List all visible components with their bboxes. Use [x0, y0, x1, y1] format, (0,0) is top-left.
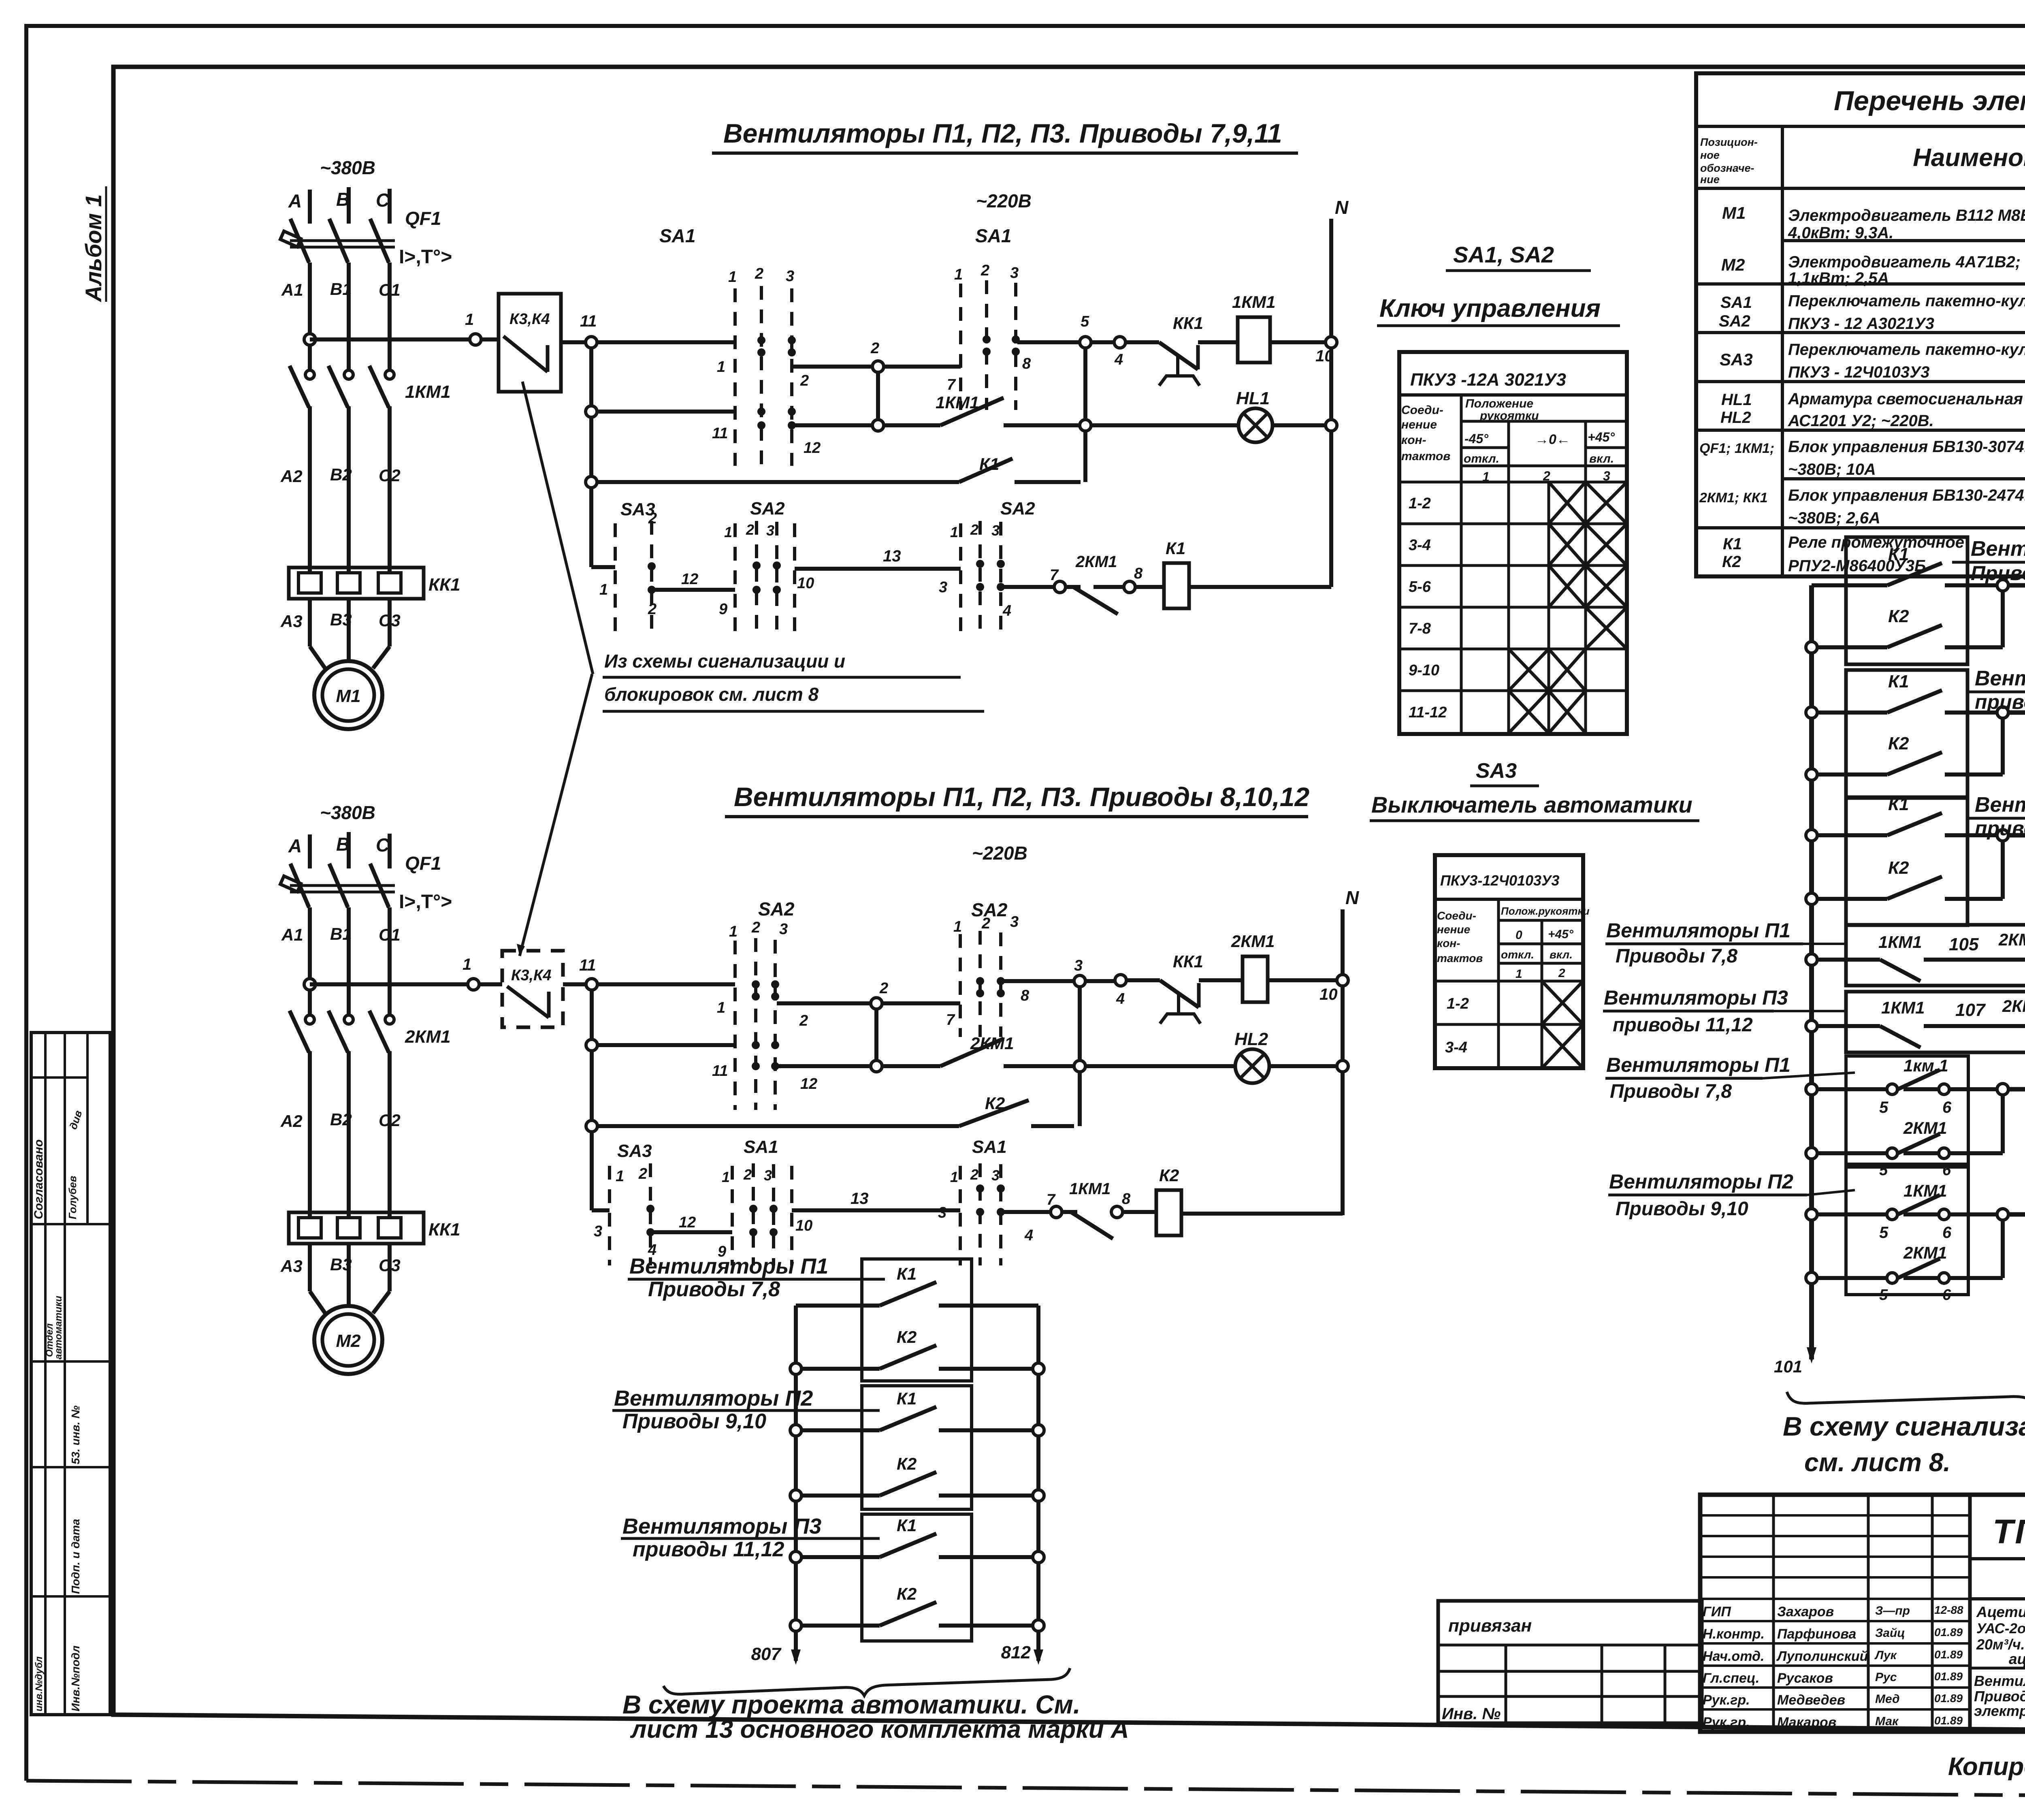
- svg-text:Выключатель автоматики: Выключатель автоматики: [1371, 792, 1692, 817]
- phase wires overload to motor (М2): [308, 1244, 312, 1291]
- svg-text:Переключатель пакетно-кулачко: Переключатель пакетно-кулачковый: [1788, 341, 2025, 358]
- ladder brace: [663, 1668, 1070, 1696]
- title block vertical split: [1968, 1495, 1972, 1732]
- svg-text:SA2: SA2: [1000, 499, 1035, 518]
- switch table PKU3-12Ch0103U3: [1435, 855, 1583, 1068]
- svg-text:Приводы 7,8: Приводы 7,8: [648, 1278, 780, 1301]
- wire row1 to SA1a: [597, 340, 735, 344]
- document number TPR 405-9-0 34.A9 EM: [1970, 1557, 2025, 1560]
- svg-text:К1: К1: [897, 1516, 917, 1535]
- svg-text:Макаров: Макаров: [1777, 1715, 1836, 1730]
- wire HL1 to N: [1273, 423, 1331, 427]
- SA3 contact dots circuit 2: [646, 1205, 654, 1213]
- output 5-6 to bus x5110: [2008, 1212, 2025, 1217]
- svg-text:А: А: [288, 190, 302, 211]
- callout line text to K3K4-2: [520, 674, 592, 956]
- svg-text:SA1, SA2: SA1, SA2: [1453, 242, 1554, 267]
- svg-text:2: 2: [981, 915, 990, 932]
- node 8 circuit 1: [1124, 581, 1135, 593]
- stamp row line 4: [31, 1466, 110, 1468]
- node 1 circuit 2: [468, 979, 479, 990]
- wire row4 entry circuit 1: [591, 565, 615, 569]
- motor М2: [314, 1306, 382, 1374]
- table2 data grid: [1435, 980, 1583, 983]
- svg-text:Перечень элементов: Перечень элементов: [1834, 85, 2025, 116]
- auxiliary contact 2KM1 circuit 2: [882, 1064, 940, 1068]
- svg-text:блокировок см. лист 8: блокировок см. лист 8: [604, 684, 819, 705]
- node 7 circuit 1: [1054, 581, 1066, 593]
- link node2 down: [876, 372, 880, 420]
- svg-text:01.89: 01.89: [1934, 1670, 1963, 1683]
- link node3 down to row2 circuit 2: [1078, 987, 1082, 1060]
- svg-text:див: див: [67, 1109, 84, 1131]
- svg-text:С3: С3: [379, 1256, 401, 1275]
- svg-text:приводы 11,12: приводы 11,12: [633, 1538, 784, 1561]
- svg-text:ацетилена.: ацетилена.: [2009, 1651, 2025, 1667]
- svg-text:М1: М1: [1722, 203, 1746, 222]
- network brace: [1787, 1374, 2025, 1405]
- svg-text:Рук.гр.: Рук.гр.: [1703, 1715, 1750, 1730]
- contact 2КМ1 5-6 row y2847: [1806, 1148, 1817, 1159]
- svg-text:вкл.: вкл.: [1589, 452, 1614, 465]
- svg-text:01.89: 01.89: [1934, 1626, 1963, 1639]
- thermal overload KK1 heaters (М1): [289, 568, 424, 599]
- svg-text:В схему проекта автоматики.: В схему проекта автоматики. См.: [622, 1690, 1081, 1719]
- svg-text:12: 12: [681, 571, 698, 588]
- svg-text:К3,К4: К3,К4: [509, 311, 550, 328]
- svg-text:УАС-2ог производительностью: УАС-2ог производительностью: [1976, 1621, 2025, 1637]
- wire node1 to K3K4: [481, 337, 499, 341]
- svg-text:Приводы 7,8: Приводы 7,8: [1971, 562, 2025, 585]
- phase A wire QF1 to contactor (М2): [308, 907, 312, 1015]
- svg-text:Наименование: Наименование: [1913, 144, 2025, 172]
- svg-text:SA1: SA1: [972, 1137, 1007, 1157]
- svg-text:Положение: Положение: [1465, 397, 1533, 410]
- svg-text:1КМ1: 1КМ1: [405, 382, 451, 402]
- svg-text:4: 4: [1002, 602, 1011, 619]
- svg-text:С: С: [376, 190, 390, 211]
- svg-text:К2: К2: [1888, 734, 1909, 753]
- stamp column line b: [64, 1033, 66, 1715]
- stamp row line 3: [31, 1360, 110, 1363]
- link node5 down to row2: [1083, 348, 1087, 420]
- svg-text:8: 8: [1022, 355, 1031, 372]
- junction row1 on N circuit 2: [1337, 975, 1348, 986]
- svg-text:1: 1: [1516, 967, 1522, 981]
- relay contact K1 circuit 1: [959, 459, 1013, 482]
- phase wires overload to motor (М1): [308, 599, 312, 646]
- svg-text:приводы 11,12: приводы 11,12: [1975, 817, 2025, 840]
- svg-text:Вентиляторы П3: Вентиляторы П3: [1604, 986, 1788, 1009]
- svg-text:ГИП: ГИП: [1703, 1604, 1731, 1619]
- relay contact К2 row y2219: [1887, 877, 1942, 899]
- svg-text:3: 3: [1010, 265, 1019, 282]
- svg-text:Соеди-: Соеди-: [1401, 403, 1443, 417]
- stamp column line c: [86, 1033, 89, 1224]
- relay contact box К1/К2 y1326: [1846, 537, 1967, 664]
- junction row1 on N circuit 1: [1326, 337, 1337, 348]
- svg-text:7: 7: [1047, 1191, 1056, 1208]
- wire row1 phase tap to node 1 circuit 2: [310, 982, 468, 986]
- svg-text:Вентиляторы П1, П2, П3. Привод: Вентиляторы П1, П2, П3. Приводы 8,10,12: [734, 782, 1309, 812]
- wire node2 to SA1b: [884, 365, 961, 369]
- svg-text:7: 7: [1050, 567, 1059, 584]
- phase C lead-in wire (М2): [388, 834, 392, 868]
- svg-text:1: 1: [599, 581, 608, 598]
- svg-text:10: 10: [1315, 347, 1334, 365]
- wire row1 phase tap to node 1: [310, 337, 470, 341]
- control tap node on phase A (М2): [304, 979, 315, 990]
- contact 1км,1 5-6 row y2689: [1806, 1084, 1817, 1095]
- svg-text:HL1: HL1: [1721, 391, 1752, 409]
- corner row3 up to row2 circuit 2: [1078, 1072, 1082, 1126]
- svg-text:SA1: SA1: [1720, 294, 1752, 312]
- svg-text:А3: А3: [280, 612, 303, 631]
- svg-text:SA3: SA3: [1476, 759, 1517, 783]
- svg-text:13: 13: [883, 547, 901, 565]
- svg-text:Захаров: Захаров: [1777, 1604, 1834, 1619]
- svg-text:6: 6: [1942, 1099, 1952, 1116]
- svg-text:Ацетиленовая станция: Ацетиленовая станция: [1976, 1604, 2025, 1620]
- pair link vertical 5-6 y2998: [1997, 1209, 2008, 1220]
- relay contact box К1/К2 y1970: [1846, 798, 1967, 925]
- svg-text:6: 6: [1942, 1224, 1952, 1242]
- node row2-mid circuit 1: [872, 420, 884, 431]
- svg-text:С: С: [376, 834, 390, 856]
- svg-text:К2: К2: [1722, 553, 1741, 571]
- svg-text:К2: К2: [1888, 606, 1909, 626]
- svg-text:1: 1: [724, 524, 732, 540]
- svg-text:Соеди-: Соеди-: [1437, 909, 1476, 922]
- svg-text:В2: В2: [330, 465, 352, 484]
- svg-text:2: 2: [751, 919, 760, 936]
- pair link vertical 5-6 y2689: [1997, 1084, 2008, 1095]
- element list table frame: [1696, 73, 2025, 576]
- svg-text:2: 2: [870, 340, 879, 357]
- svg-text:К1: К1: [897, 1264, 917, 1283]
- svg-text:3: 3: [766, 522, 774, 539]
- svg-text:Инв. №: Инв. №: [1442, 1705, 1501, 1723]
- relay contact K2 circuit 2: [959, 1100, 1029, 1126]
- stamp text left col: [34, 1656, 45, 1711]
- svg-text:~220В: ~220В: [976, 190, 1032, 211]
- ladder contact К2 row y4013: [790, 1620, 801, 1631]
- svg-text:8: 8: [1021, 987, 1030, 1004]
- phase A lead-in wire (М1): [308, 190, 312, 224]
- svg-text:3-4: 3-4: [1445, 1039, 1467, 1056]
- svg-text:2: 2: [1558, 967, 1565, 980]
- stamp text Согласовано: [32, 1139, 45, 1219]
- svg-text:Лук: Лук: [1874, 1649, 1897, 1662]
- svg-text:Нач.отд.: Нач.отд.: [1703, 1649, 1764, 1664]
- svg-text:2КМ1; КК1: 2КМ1; КК1: [1699, 490, 1768, 506]
- svg-text:53. инв. №: 53. инв. №: [69, 1406, 82, 1464]
- svg-text:1: 1: [953, 918, 962, 935]
- relay contact К2 row y1598: [1887, 625, 1942, 647]
- svg-text:Блок управления БВ130-2474УХ: Блок управления БВ130-2474УХЛ4;: [1788, 486, 2025, 504]
- ladder box 1: [862, 1259, 972, 1381]
- svg-text:HL1: HL1: [1236, 388, 1270, 408]
- svg-text:Вентиляторы П1: Вентиляторы П1: [629, 1254, 828, 1278]
- svg-text:кон-: кон-: [1401, 433, 1426, 447]
- svg-text:107: 107: [1955, 1000, 1986, 1020]
- svg-text:11: 11: [580, 312, 597, 330]
- wire node3 to node4 circuit 2: [1085, 979, 1115, 983]
- relay coil K2 circuit 2: [1123, 1210, 1156, 1214]
- svg-text:1-2: 1-2: [1409, 495, 1431, 512]
- phase A wire QF1 to contactor (М1): [308, 262, 312, 370]
- svg-text:1: 1: [717, 358, 725, 376]
- svg-text:SA2: SA2: [1719, 312, 1750, 330]
- svg-text:Медведев: Медведев: [1777, 1692, 1845, 1708]
- svg-text:4: 4: [1024, 1227, 1033, 1244]
- svg-text:Согласовано: Согласовано: [32, 1139, 45, 1219]
- output 5-6 to bus x5216: [2008, 1087, 2025, 1092]
- svg-text:А2: А2: [280, 1112, 303, 1131]
- switch table PKU3-12A3021U3: [1399, 352, 1627, 734]
- left drop wire circuit 1: [589, 348, 593, 567]
- interlock K3,K4 dashed box circuit 2: [502, 951, 563, 1027]
- svg-text:9-10: 9-10: [1409, 662, 1439, 679]
- signature grid horizontals: [1700, 1514, 1970, 1517]
- ladder box 2: [862, 1386, 972, 1509]
- SA2a contact dots circuit 1: [752, 561, 761, 570]
- svg-text:13: 13: [850, 1190, 869, 1208]
- SA1a contact dots row1: [757, 336, 765, 344]
- wire 12 SA3 to SA2a circuit 1: [652, 588, 735, 592]
- svg-text:01.89: 01.89: [1934, 1648, 1963, 1661]
- node row2-right circuit 2: [1074, 1060, 1085, 1072]
- svg-text:10: 10: [1319, 986, 1338, 1003]
- wire node2 to SA2b circuit 2: [882, 1001, 960, 1005]
- table1 header cells: [1460, 395, 1463, 734]
- circuit breaker QF1 (М2): [290, 864, 309, 907]
- svg-text:QF1; 1КМ1;: QF1; 1КМ1;: [1699, 441, 1774, 456]
- left drop wire circuit 2: [590, 990, 594, 1210]
- node 4 circuit 1: [1114, 337, 1125, 348]
- relay coil K1 circuit 1: [1093, 585, 1124, 589]
- svg-text:Приводы 7....12. Схема: Приводы 7....12. Схема: [1974, 1688, 2025, 1705]
- wire row2 SA2a to node circuit 2: [777, 1064, 871, 1068]
- stamp row line 5: [31, 1595, 110, 1598]
- relay contact К1 row y2062: [1806, 893, 1817, 905]
- motor feeder 2 group: [280, 802, 460, 1374]
- svg-text:Из схемы сигнализации и: Из схемы сигнализации и: [604, 651, 845, 672]
- svg-text:01.89: 01.89: [1934, 1692, 1963, 1705]
- node row2-left circuit 2: [586, 1039, 597, 1051]
- svg-text:3: 3: [991, 1167, 1000, 1184]
- node 11 circuit 1: [586, 337, 597, 348]
- svg-text:2: 2: [755, 265, 763, 282]
- svg-text:Вентиляторы П1: Вентиляторы П1: [1971, 537, 2025, 561]
- svg-text:1: 1: [950, 1169, 958, 1185]
- node row2-mid circuit 2: [871, 1060, 882, 1072]
- svg-text:кон-: кон-: [1437, 937, 1460, 949]
- stamp row line 1: [31, 1076, 87, 1079]
- pair link vertical y2062: [1997, 830, 2008, 841]
- svg-text:1км,1: 1км,1: [1904, 1056, 1948, 1075]
- svg-text:3: 3: [1074, 957, 1083, 974]
- svg-text:3: 3: [764, 1167, 772, 1184]
- svg-text:~380В: ~380В: [320, 157, 375, 178]
- callout line K3K4-1 to text: [522, 382, 593, 674]
- svg-text:тактов: тактов: [1437, 952, 1483, 964]
- wire row2 to SA1a: [597, 410, 735, 414]
- motor М1: [314, 661, 382, 729]
- SA2a contact dots row2 circuit 2: [752, 1041, 760, 1049]
- svg-text:SA3: SA3: [1720, 350, 1753, 369]
- corner row3 up to row2: [1083, 431, 1087, 482]
- svg-text:Приводы 7,8: Приводы 7,8: [1616, 945, 1737, 967]
- svg-text:3: 3: [939, 579, 947, 596]
- stamp column line a: [44, 1033, 47, 1715]
- svg-text:2КМ1: 2КМ1: [2002, 996, 2025, 1016]
- svg-text:1-2: 1-2: [1447, 995, 1469, 1012]
- wire node5 to node4: [1091, 340, 1115, 344]
- svg-text:10: 10: [795, 1217, 812, 1234]
- svg-text:-45°: -45°: [1464, 431, 1488, 446]
- svg-text:3: 3: [938, 1204, 946, 1221]
- svg-text:812: 812: [1001, 1643, 1031, 1662]
- contactor coil 2KM1 circuit 2: [1243, 956, 1268, 1002]
- ladder contact К2 row y3692: [790, 1490, 801, 1501]
- node 8 circuit 2: [1111, 1206, 1123, 1218]
- svg-text:5: 5: [1879, 1099, 1889, 1116]
- junction row2 on N circuit 2: [1337, 1060, 1348, 1072]
- svg-text:5: 5: [1879, 1287, 1888, 1304]
- svg-text:2КМ1: 2КМ1: [970, 1034, 1014, 1053]
- svg-text:6: 6: [1942, 1162, 1951, 1179]
- svg-text:Рук.гр.: Рук.гр.: [1703, 1692, 1750, 1708]
- wire row2 SA1a to node: [793, 423, 873, 427]
- svg-text:1: 1: [950, 524, 958, 540]
- motor feeder 1 group: [280, 157, 460, 729]
- svg-text:3: 3: [1010, 913, 1019, 930]
- svg-text:SA2: SA2: [750, 499, 785, 518]
- node 11 circuit 2: [586, 979, 597, 990]
- svg-text:2КМ1: 2КМ1: [1903, 1243, 1947, 1262]
- svg-text:SA3: SA3: [617, 1141, 652, 1161]
- svg-text:12: 12: [800, 1075, 817, 1092]
- svg-text:К1: К1: [979, 454, 999, 474]
- stamp text Отдел автоматики: [44, 1323, 55, 1357]
- svg-text:1КМ1: 1КМ1: [936, 393, 979, 412]
- svg-text:11-12: 11-12: [1409, 704, 1447, 721]
- svg-text:5: 5: [1879, 1224, 1889, 1242]
- attachment block: [1438, 1601, 1702, 1723]
- contactor 1КМ1 main contacts (М1): [305, 370, 314, 379]
- svg-text:Вентиляторы П1, П2, П3.: Вентиляторы П1, П2, П3.: [1974, 1673, 2025, 1689]
- svg-text:А3: А3: [280, 1257, 303, 1276]
- svg-text:Ключ управления: Ключ управления: [1379, 294, 1601, 322]
- SA2a contact dots row1 circuit 2: [752, 980, 760, 988]
- interlock K3,K4 box circuit 1: [499, 294, 561, 392]
- svg-text:К1: К1: [1166, 539, 1185, 558]
- output wire to bus x5629: [2008, 583, 2025, 588]
- stamp row line 2: [31, 1223, 110, 1225]
- svg-text:рукоятки: рукоятки: [1479, 409, 1539, 422]
- ladder bottom arrows 807 812: [791, 1649, 801, 1665]
- wire SA1b to node 5: [1017, 340, 1081, 344]
- svg-text:Приводы 9,10: Приводы 9,10: [1616, 1198, 1748, 1220]
- svg-text:4,0кВт; 9,3А.: 4,0кВт; 9,3А.: [1788, 224, 1893, 242]
- control tap node on phase A (М1): [304, 334, 315, 345]
- svg-text:М1: М1: [336, 686, 360, 706]
- svg-text:1КМ1: 1КМ1: [1904, 1181, 1947, 1200]
- svg-text:Вентиляторы П2: Вентиляторы П2: [1609, 1170, 1793, 1193]
- contactor coil 1KM1 circuit 1: [1238, 317, 1270, 363]
- svg-text:Вентиляторы П1: Вентиляторы П1: [1606, 919, 1791, 942]
- svg-text:8: 8: [1122, 1191, 1131, 1208]
- svg-text:+45°: +45°: [1588, 430, 1615, 444]
- svg-text:инв.№дубл: инв.№дубл: [34, 1656, 45, 1711]
- svg-text:2КМ1: 2КМ1: [405, 1027, 451, 1047]
- svg-text:2: 2: [981, 262, 989, 279]
- contact 1КМ1 5-6 row y2998: [1806, 1209, 1817, 1220]
- interlock row 107 contacts: [1806, 1020, 1817, 1032]
- neutral rail N circuit 2: [1341, 909, 1345, 1215]
- svg-text:Электродвигатель 4А71В2; ~380В: Электродвигатель 4А71В2; ~380В;: [1788, 253, 2025, 271]
- thermal contact KK1 circuit 1: [1125, 340, 1159, 344]
- svg-text:Приводы 7,8: Приводы 7,8: [1610, 1081, 1732, 1102]
- svg-text:ПКУ3-12Ч0103У3: ПКУ3-12Ч0103У3: [1440, 872, 1559, 889]
- sheet bottom torn edge line: [26, 1781, 2025, 1799]
- contact box 1км,1/2КМ1 5-6 y2607: [1846, 1056, 1968, 1164]
- svg-text:HL2: HL2: [1720, 409, 1751, 427]
- svg-text:1: 1: [722, 1169, 730, 1185]
- table1 data grid: [1399, 481, 1627, 484]
- SA2b contact dots circuit 2: [976, 977, 984, 985]
- relay contact К1 row y1445: [1806, 642, 1817, 653]
- output wire to bus x5431: [2008, 833, 2025, 838]
- svg-text:ТПР 405–9–0 34.А9: ТПР 405–9–0 34.А9: [1993, 1513, 2025, 1551]
- svg-text:20м³/ч. газообразного: 20м³/ч. газообразного: [1976, 1636, 2025, 1653]
- svg-text:ПКУ3 - 12 А3021У3: ПКУ3 - 12 А3021У3: [1788, 315, 1934, 333]
- neutral rail N circuit 1: [1329, 219, 1333, 587]
- SA1b contact dots: [983, 335, 991, 344]
- svg-text:АС1201 У2; ~220В.: АС1201 У2; ~220В.: [1788, 412, 1934, 430]
- thermal overload KK1 heaters (М2): [289, 1212, 424, 1244]
- svg-text:Копировал Викулова: Копировал Викулова: [1948, 1753, 2025, 1781]
- svg-text:Вентиляторы П2: Вентиляторы П2: [1975, 667, 2025, 690]
- element table column lines: [1781, 126, 1784, 576]
- svg-text:ПКУ3 -12А 3021У3: ПКУ3 -12А 3021У3: [1410, 370, 1566, 390]
- stamp text Инв. № подл.: [69, 1645, 82, 1711]
- SA3 contact dots circuit 1: [648, 562, 656, 570]
- svg-text:1,1кВт; 2,5А: 1,1кВт; 2,5А: [1788, 269, 1889, 287]
- wire K2 coil to N circuit 2: [1181, 1212, 1343, 1216]
- node 5 circuit 1: [1080, 337, 1091, 348]
- wire SA1b to node 7 circuit 2: [1002, 1210, 1051, 1214]
- node 2 circuit 2: [871, 998, 882, 1009]
- wire node1 to K3K4 circuit 2: [479, 982, 502, 986]
- phase B wire QF1 to contactor (М1): [347, 262, 351, 370]
- svg-text:2: 2: [648, 510, 657, 527]
- svg-text:Блок управления БВ130-3074УХ: Блок управления БВ130-3074УХЛ4;: [1788, 438, 2025, 456]
- svg-text:+45°: +45°: [1548, 928, 1574, 941]
- svg-text:2: 2: [800, 372, 809, 389]
- SA2b contact dots circuit 1: [976, 560, 984, 568]
- svg-text:3-4: 3-4: [1409, 537, 1431, 554]
- svg-text:1: 1: [728, 269, 737, 286]
- svg-text:Парфинова: Парфинова: [1777, 1626, 1856, 1642]
- wire row1 SA2a to node 2 circuit 2: [777, 1001, 871, 1005]
- svg-text:6: 6: [1942, 1287, 1951, 1304]
- svg-text:привязан: привязан: [1448, 1616, 1532, 1636]
- wire SA2b to node 3 circuit 2: [1002, 979, 1074, 983]
- phase A lead-in wire (М2): [308, 834, 312, 868]
- svg-text:Луполинский: Луполинский: [1776, 1649, 1868, 1664]
